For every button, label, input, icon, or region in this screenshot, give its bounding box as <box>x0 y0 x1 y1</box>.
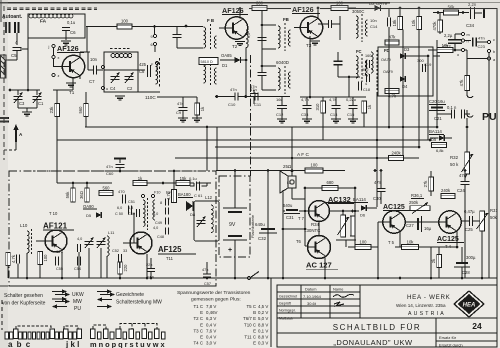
battery 9V bottom cell <box>228 235 242 237</box>
svg-text:T6/7 E: T6/7 E <box>243 316 256 321</box>
svg-text:R32: R32 <box>450 155 459 160</box>
wire C25 r <box>473 220 481 222</box>
svg-text:FC: FC <box>356 49 362 54</box>
junction y140 a <box>429 139 432 142</box>
capacitor C11 series <box>254 93 256 101</box>
svg-text:Ersatz für: Ersatz für <box>439 335 457 340</box>
svg-text:470k: 470k <box>432 21 437 31</box>
wire C10 down <box>253 97 255 105</box>
title table col2 <box>329 285 331 318</box>
svg-text:4,0: 4,0 <box>77 237 82 241</box>
ground 1k b <box>192 117 202 119</box>
junction C22 <box>454 49 457 52</box>
wire tuning top <box>10 89 40 91</box>
svg-text:D1: D1 <box>222 63 228 68</box>
capacitor C54 <box>77 257 79 266</box>
wire T1 base <box>53 66 62 68</box>
wire C34 right <box>475 12 483 14</box>
svg-text:220: 220 <box>123 264 128 272</box>
potentiometer R36 <box>410 206 430 211</box>
svg-text:L10: L10 <box>20 223 28 228</box>
page shading left <box>0 0 8 348</box>
coil L10 <box>27 231 29 253</box>
resistor 100c <box>305 168 323 173</box>
wire if3b r <box>337 65 339 77</box>
wire C57 up <box>206 262 208 274</box>
svg-text:3,0 V: 3,0 V <box>206 341 216 346</box>
capacitor C23 <box>472 38 474 47</box>
wire C30 down <box>380 192 382 204</box>
svg-text:E: E <box>200 310 203 315</box>
junction if3b <box>348 76 351 79</box>
svg-text:9V: 9V <box>229 222 236 228</box>
resistor 47k b <box>385 88 399 93</box>
wire 56k b up <box>72 183 74 188</box>
separator x271 <box>270 278 272 347</box>
svg-text:u: u <box>106 87 108 91</box>
coil box FA <box>28 14 85 38</box>
junction y127 b <box>388 126 391 129</box>
wire right col <box>488 53 490 278</box>
wire C44 drop <box>78 252 80 278</box>
capacitor C53 <box>118 254 120 262</box>
coil FB1 primary <box>204 27 206 48</box>
underline AF126 T2 <box>222 14 248 16</box>
bus y278 <box>10 277 497 279</box>
capacitor C28 electrolytic <box>456 262 468 264</box>
coil L11 <box>107 236 109 256</box>
page top edge faint <box>390 2 500 4</box>
svg-text:A F C: A F C <box>297 152 310 158</box>
svg-text:6,0: 6,0 <box>117 206 122 210</box>
junction base top <box>304 187 307 190</box>
svg-text:T 5: T 5 <box>388 240 395 245</box>
svg-text:Spannungswerte der Transistore: Spannungswerte der Transistoren <box>177 290 251 296</box>
coil FB1 secondary <box>215 36 217 48</box>
right border wire <box>496 8 498 347</box>
transistor T7 <box>309 201 330 222</box>
wire C23 right <box>477 41 488 43</box>
svg-text:OA85: OA85 <box>221 53 232 58</box>
svg-text:6,8k: 6,8k <box>436 148 444 153</box>
wire T4 rail <box>424 246 457 248</box>
resistor 1k b <box>195 103 200 115</box>
svg-text:E: E <box>200 335 203 340</box>
terminal u <box>101 86 104 89</box>
svg-text:6,0: 6,0 <box>247 33 251 38</box>
svg-text:C15: C15 <box>347 112 355 117</box>
resistor 15k <box>176 180 190 185</box>
svg-text:AC 127: AC 127 <box>306 261 332 270</box>
wire C10 up <box>253 90 255 94</box>
svg-text:C1: C1 <box>38 101 44 106</box>
wire 10k b left <box>428 49 437 51</box>
capacitor page edge <box>0 118 9 122</box>
wire C53 drop <box>119 262 121 268</box>
capacitor C60 top bar <box>114 158 126 160</box>
title block outer <box>277 285 497 347</box>
resistor 100b <box>331 5 348 10</box>
wire C13 down <box>335 109 337 120</box>
transformer FD core <box>376 50 378 92</box>
wire FA box drop <box>27 38 29 50</box>
wire L12 top <box>196 182 211 184</box>
resistor 100 e <box>355 244 371 249</box>
svg-text:250k: 250k <box>409 200 419 205</box>
top border dashed row b <box>7 8 97 10</box>
svg-text:C14: C14 <box>370 24 378 29</box>
svg-text:C 50: C 50 <box>115 212 123 216</box>
switch dash-dot x250 <box>250 55 252 176</box>
svg-text:7,8 V: 7,8 V <box>206 304 216 309</box>
wire R32 down <box>465 174 467 178</box>
bus y147 <box>215 146 419 148</box>
wire det rail c <box>259 96 291 98</box>
svg-text:a b c: a b c <box>8 340 31 348</box>
resistor 310 <box>321 101 326 113</box>
wire 1k b down <box>196 115 198 119</box>
capacitor C50 <box>128 206 130 215</box>
svg-text:C34: C34 <box>466 23 475 28</box>
wire T1 collector to C7 <box>79 52 81 58</box>
ground C15 <box>348 118 358 120</box>
wire if2b up <box>261 66 263 73</box>
junction C24 <box>464 169 467 172</box>
potentiometer R32 <box>465 152 470 174</box>
bottom dash-dot <box>0 285 216 287</box>
coil FD primary <box>371 52 373 73</box>
junction battery bottom <box>234 277 237 280</box>
page shading bottomleft <box>0 290 90 348</box>
wire C20 col2 <box>436 111 438 114</box>
svg-text:560: 560 <box>103 186 111 191</box>
arrow gez a <box>97 291 108 293</box>
svg-text:8: 8 <box>160 201 162 205</box>
svg-text:50k: 50k <box>490 215 498 220</box>
loudspeaker <box>280 171 296 193</box>
ground C6 <box>61 40 71 42</box>
capacitor C60 <box>116 164 125 166</box>
svg-text:C2: C2 <box>127 86 133 91</box>
wire T5 base <box>378 221 383 223</box>
svg-text:Schalter gesehen: Schalter gesehen <box>4 293 43 299</box>
capacitor C22 <box>448 39 462 41</box>
wire 23k col <box>56 140 58 183</box>
wire battery up <box>234 171 236 208</box>
wire T4 emitter down <box>456 231 458 247</box>
bus y140 <box>57 139 430 141</box>
wire speaker down <box>291 188 293 199</box>
wire 1k b up <box>196 97 198 103</box>
svg-text:T 7: T 7 <box>298 216 305 221</box>
resistor 4,7k b <box>172 190 177 203</box>
ground oscillator <box>115 95 125 97</box>
junction terminal 9 top <box>153 25 156 28</box>
wire C28 up <box>461 247 463 263</box>
junction speaker bus <box>282 277 285 280</box>
wire antenna to C5 <box>16 33 18 45</box>
resistor 56k <box>444 10 459 15</box>
svg-text:BA114: BA114 <box>429 129 442 134</box>
wire 10k c left <box>395 246 402 248</box>
wire if2b link2 <box>262 89 276 91</box>
wire antenna column <box>27 50 29 90</box>
wire o to col <box>465 49 467 51</box>
junction bus f <box>206 277 209 280</box>
switch lever <box>251 272 259 278</box>
junction tuning a <box>27 89 30 92</box>
capacitor C30 <box>377 188 386 190</box>
terminal 5 <box>101 65 104 68</box>
svg-text:C23: C23 <box>478 44 486 49</box>
capacitor C21 a <box>451 110 453 119</box>
diode D7 <box>96 212 102 218</box>
svg-text:18k: 18k <box>392 19 397 27</box>
capacitor C8 <box>147 65 149 77</box>
svg-text:7,6 V: 7,6 V <box>206 328 216 333</box>
wire T1 down <box>72 78 74 90</box>
junction pu col <box>466 126 469 129</box>
junction 56k l <box>437 11 440 14</box>
svg-text:6040D: 6040D <box>276 60 289 65</box>
junction R31 <box>481 277 484 280</box>
capacitor if3b <box>334 60 343 62</box>
wire C31 left lead <box>283 210 285 212</box>
svg-text:100: 100 <box>43 254 48 262</box>
svg-text:E: E <box>253 328 256 333</box>
coil FA winding <box>29 14 73 18</box>
svg-text:30.6t: 30.6t <box>307 301 317 306</box>
svg-text:AF126: AF126 <box>57 44 79 53</box>
resistor 10k b <box>437 47 453 52</box>
wire gnd rail <box>18 107 37 109</box>
jack hook lower <box>467 110 473 117</box>
svg-text:Datum: Datum <box>305 287 316 292</box>
junction if2c <box>261 65 264 68</box>
wire c if1 <box>176 27 178 35</box>
wire 27k up <box>430 171 432 177</box>
svg-text:4,7n: 4,7n <box>301 97 309 102</box>
svg-text:6,3 V: 6,3 V <box>206 316 216 321</box>
wire C24 down <box>464 185 466 278</box>
wire if3a r <box>332 23 341 25</box>
wire C5 to column <box>20 48 28 50</box>
terminal F <box>155 61 158 64</box>
wire T6 down <box>324 257 326 279</box>
svg-text:b: b <box>493 50 495 54</box>
junction y229 b <box>304 228 307 231</box>
wire T2 collector up <box>239 9 241 19</box>
label backdrop T3 <box>291 4 320 13</box>
svg-text:100: 100 <box>311 163 319 168</box>
svg-text:47n: 47n <box>230 87 237 92</box>
wire D1 right <box>241 59 247 61</box>
wire 680 left <box>305 187 322 189</box>
wire n link <box>465 40 471 42</box>
wire T11 emitter down <box>146 254 148 278</box>
svg-text:C28: C28 <box>462 270 470 275</box>
underline OA90 <box>83 208 97 210</box>
capacitor if3a <box>328 20 330 28</box>
terminal n <box>461 39 464 42</box>
svg-text:C4: C4 <box>110 86 116 91</box>
svg-text:C27: C27 <box>406 223 414 228</box>
left border dashed <box>3 6 5 160</box>
capacitor C25 <box>469 216 471 226</box>
wire 18k up <box>399 8 401 17</box>
ferrite antenna hatched <box>1 55 7 78</box>
svg-text:+: + <box>228 247 232 254</box>
resistor 330 <box>252 5 267 10</box>
svg-text:C5: C5 <box>11 53 17 58</box>
wire T4-T5 link <box>405 221 432 223</box>
svg-text:900: 900 <box>362 68 368 72</box>
junction y158 a <box>291 157 294 160</box>
wire C1 drop <box>36 90 38 95</box>
svg-text:Name: Name <box>333 287 343 292</box>
svg-text:C54: C54 <box>74 267 81 271</box>
wire C52 link <box>133 213 135 243</box>
svg-text:T 10: T 10 <box>49 211 58 216</box>
wire drop x419 <box>418 30 420 148</box>
svg-text:130NTC: 130NTC <box>304 228 320 233</box>
capacitor C10 <box>250 93 258 95</box>
wire T1 row <box>157 96 197 98</box>
resistor 56k b <box>71 188 76 202</box>
title signature 2 <box>334 302 344 306</box>
svg-text:C31: C31 <box>286 215 294 220</box>
transformer FB1 lower core <box>210 60 212 86</box>
capacitor C10 series <box>234 93 236 101</box>
wire C12 down <box>281 109 283 120</box>
svg-text:AC125: AC125 <box>437 236 459 243</box>
svg-text:D6: D6 <box>360 213 366 218</box>
wire FA corner drop <box>86 27 88 53</box>
resistor 47k pu <box>465 76 470 91</box>
wire 75 up <box>438 247 440 255</box>
ground C9 <box>178 117 188 119</box>
wire A column <box>15 142 17 150</box>
wire C42 drop <box>88 248 90 278</box>
svg-text:AC125: AC125 <box>383 204 405 211</box>
wire drop x389 <box>388 40 390 127</box>
junction rail2 <box>309 96 312 99</box>
svg-text:Normgepr.: Normgepr. <box>279 309 296 313</box>
capacitor C6 <box>62 27 70 29</box>
title table line h2 <box>277 298 360 300</box>
svg-text:5,0 V: 5,0 V <box>258 316 268 321</box>
svg-text:o: o <box>457 53 459 57</box>
svg-text:C6: C6 <box>70 30 76 35</box>
resistor 1k c <box>133 180 147 185</box>
resistor 27k <box>429 177 434 191</box>
ground C13 <box>331 118 341 120</box>
wire C56 up <box>150 258 152 268</box>
junction C30 <box>380 169 383 172</box>
svg-text:680: 680 <box>327 180 335 185</box>
svg-text:10k: 10k <box>411 19 416 27</box>
svg-text:Ersetzt durch: Ersetzt durch <box>439 343 463 348</box>
coil L12 <box>211 205 213 233</box>
junction if1 <box>185 25 188 28</box>
junction T3 bus <box>317 7 320 10</box>
wire 27k col drop <box>430 247 432 278</box>
svg-text:L12: L12 <box>205 195 213 200</box>
wire gnd stub <box>26 108 28 112</box>
junction R34 top <box>342 210 345 213</box>
svg-text:m: m <box>467 33 470 37</box>
title line h5 <box>277 317 497 319</box>
svg-text:C30: C30 <box>373 196 381 201</box>
transistor T10 <box>45 230 67 252</box>
wire 6 stub <box>154 46 156 52</box>
wire C24 up <box>464 171 466 181</box>
capacitor C31 electrolytic <box>286 209 298 211</box>
resistor 560a <box>84 104 89 117</box>
bus y127 <box>85 126 437 128</box>
svg-text:C11: C11 <box>254 102 262 107</box>
terminal x <box>52 55 55 58</box>
svg-text:100: 100 <box>360 240 368 245</box>
svg-text:C51: C51 <box>128 200 135 204</box>
underline C20 <box>429 104 446 106</box>
wire C30 up <box>380 171 382 188</box>
diode D5 <box>439 135 445 141</box>
wire battery down <box>234 240 236 278</box>
ground C33 <box>302 118 312 120</box>
svg-text:0,22u: 0,22u <box>346 97 356 102</box>
wire speaker column <box>282 190 284 278</box>
resistor 36 <box>85 188 90 202</box>
diode D3 <box>400 53 406 59</box>
coil FB1 lower primary <box>204 62 206 83</box>
svg-text:47k: 47k <box>389 35 397 40</box>
wire c if1 b <box>176 38 178 48</box>
wire drop x323 <box>322 127 324 140</box>
svg-text:7.10.1964: 7.10.1964 <box>303 294 322 299</box>
resistor 560b <box>99 190 113 195</box>
page left edge <box>0 0 2 22</box>
wire R34 rail <box>330 210 359 212</box>
wire drop x377 <box>376 92 378 171</box>
svg-text:C48: C48 <box>157 235 164 239</box>
capacitor C9 <box>179 107 188 109</box>
wire 560 down <box>85 117 87 128</box>
terminal z <box>52 73 55 76</box>
wire m link <box>455 33 461 35</box>
switch bracket b <box>64 326 78 329</box>
underline BA114 <box>429 134 444 136</box>
antenna plates <box>6 22 19 33</box>
svg-text:560: 560 <box>78 106 83 114</box>
svg-text:j k l: j k l <box>65 340 79 348</box>
wire C3 to gnd <box>17 100 19 108</box>
capacitor C34 <box>470 7 472 19</box>
terminal F10 <box>141 194 144 197</box>
underline AC132 <box>328 203 354 205</box>
resistor 240k a <box>389 155 404 160</box>
coil F10 <box>143 200 145 226</box>
svg-text:0,1 n: 0,1 n <box>447 105 457 110</box>
wire drop x207 <box>206 127 208 171</box>
wire C15 up <box>352 97 354 105</box>
title table col1 <box>300 285 302 318</box>
junction T5 base bus <box>377 277 380 280</box>
terminal o <box>461 48 464 51</box>
svg-text:C57: C57 <box>204 282 211 286</box>
coil FB3 primary <box>278 68 280 90</box>
svg-text:T10 C: T10 C <box>244 322 256 327</box>
